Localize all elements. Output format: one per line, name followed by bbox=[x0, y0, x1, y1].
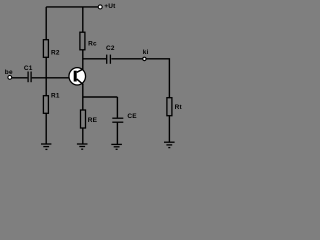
ground under RE bbox=[77, 144, 88, 149]
svg-text:CE: CE bbox=[127, 113, 137, 120]
resistor R1 bbox=[43, 96, 48, 114]
wire emitter junction down to RE top bbox=[82, 97, 84, 110]
capacitor CE bbox=[112, 118, 123, 122]
svg-text:ki: ki bbox=[143, 49, 149, 56]
svg-text:R2: R2 bbox=[51, 49, 60, 56]
svg-text:+Ut: +Ut bbox=[104, 3, 116, 10]
wire RE bottom to ground bbox=[82, 128, 84, 144]
resistor Rc bbox=[80, 32, 85, 50]
wire emitter of Q1 down to emitter junction bbox=[82, 84, 84, 97]
transistor Q1 bbox=[69, 68, 86, 85]
input terminal bbox=[8, 76, 12, 80]
svg-text:C1: C1 bbox=[24, 65, 33, 72]
resistor RE bbox=[81, 110, 86, 128]
capacitor C2 bbox=[107, 55, 111, 64]
svg-text:C2: C2 bbox=[106, 45, 115, 52]
ground under Rt bbox=[164, 142, 175, 147]
capacitor C1 bbox=[28, 72, 31, 83]
ground under R1 bbox=[41, 144, 51, 149]
resistor R2 bbox=[43, 40, 48, 58]
supply terminal bbox=[98, 5, 102, 9]
wire top supply rail bbox=[46, 6, 98, 8]
svg-text:R1: R1 bbox=[51, 93, 60, 100]
svg-text:be: be bbox=[5, 69, 13, 76]
svg-text:Rt: Rt bbox=[175, 104, 183, 111]
wire Rc bottom to collector of Q1 bbox=[82, 50, 84, 70]
svg-text:Rc: Rc bbox=[88, 41, 97, 48]
ground under CE bbox=[111, 144, 122, 149]
wire rail junction down to Rc top bbox=[82, 7, 84, 32]
wire left column rail to R2 top bbox=[45, 7, 47, 40]
wire emitter junction to CE branch corner bbox=[83, 96, 118, 98]
node ki (output) bbox=[143, 57, 146, 60]
resistor Rt load bbox=[167, 98, 172, 116]
wire CE corner down to CE top plate bbox=[116, 97, 118, 118]
wire input terminal to C1 left plate bbox=[11, 77, 27, 79]
wire CE bottom plate to ground bbox=[116, 123, 118, 145]
wire R2 bottom through base junction to R1 top bbox=[45, 57, 47, 95]
wire C2 right plate through node ki to Rt top bbox=[111, 59, 169, 98]
wire Rt bottom to ground bbox=[168, 116, 170, 143]
wire R1 bottom to ground bbox=[45, 113, 47, 144]
wire collector junction to C2 left plate bbox=[83, 58, 106, 60]
wire C1 right plate to base of Q1 bbox=[32, 77, 69, 79]
svg-text:RE: RE bbox=[88, 117, 98, 124]
